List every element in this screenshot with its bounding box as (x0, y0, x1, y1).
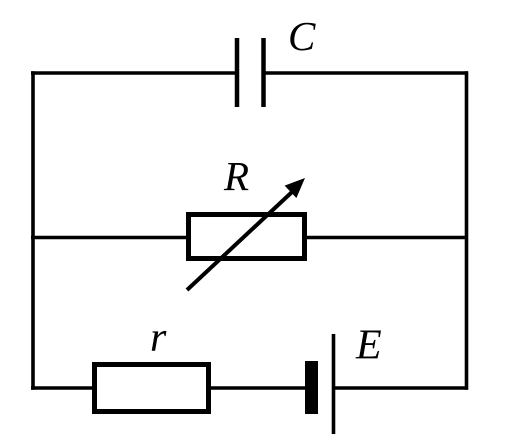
wire: middle-left horizontal segment (31, 236, 188, 240)
battery E: thin long plate (positive) (332, 334, 336, 434)
svg-text:C: C (288, 13, 316, 59)
wire: bottom-middle horizontal segment (r to battery) (209, 386, 307, 390)
variable resistor R: arrowhead (285, 178, 305, 198)
svg-text:R: R (223, 153, 249, 199)
variable resistor R: body box (189, 215, 305, 259)
wire: bottom-left horizontal segment (31, 386, 94, 390)
wire: top-right horizontal segment (263, 71, 469, 75)
capacitor C: left plate (235, 38, 240, 107)
wire: middle-right horizontal segment (305, 236, 468, 240)
wire: left vertical (31, 71, 35, 390)
wire: right vertical (465, 71, 469, 390)
battery E: thick short plate (negative) (305, 361, 318, 414)
svg-text:E: E (355, 323, 382, 369)
resistor r: body box (95, 365, 209, 412)
wire: bottom-right horizontal segment (battery to right wire) (332, 386, 468, 390)
capacitor C: right plate (261, 38, 266, 107)
wire: top-left horizontal segment (31, 71, 237, 75)
svg-text:r: r (150, 315, 167, 361)
variable resistor R: arrow shaft (187, 192, 292, 290)
